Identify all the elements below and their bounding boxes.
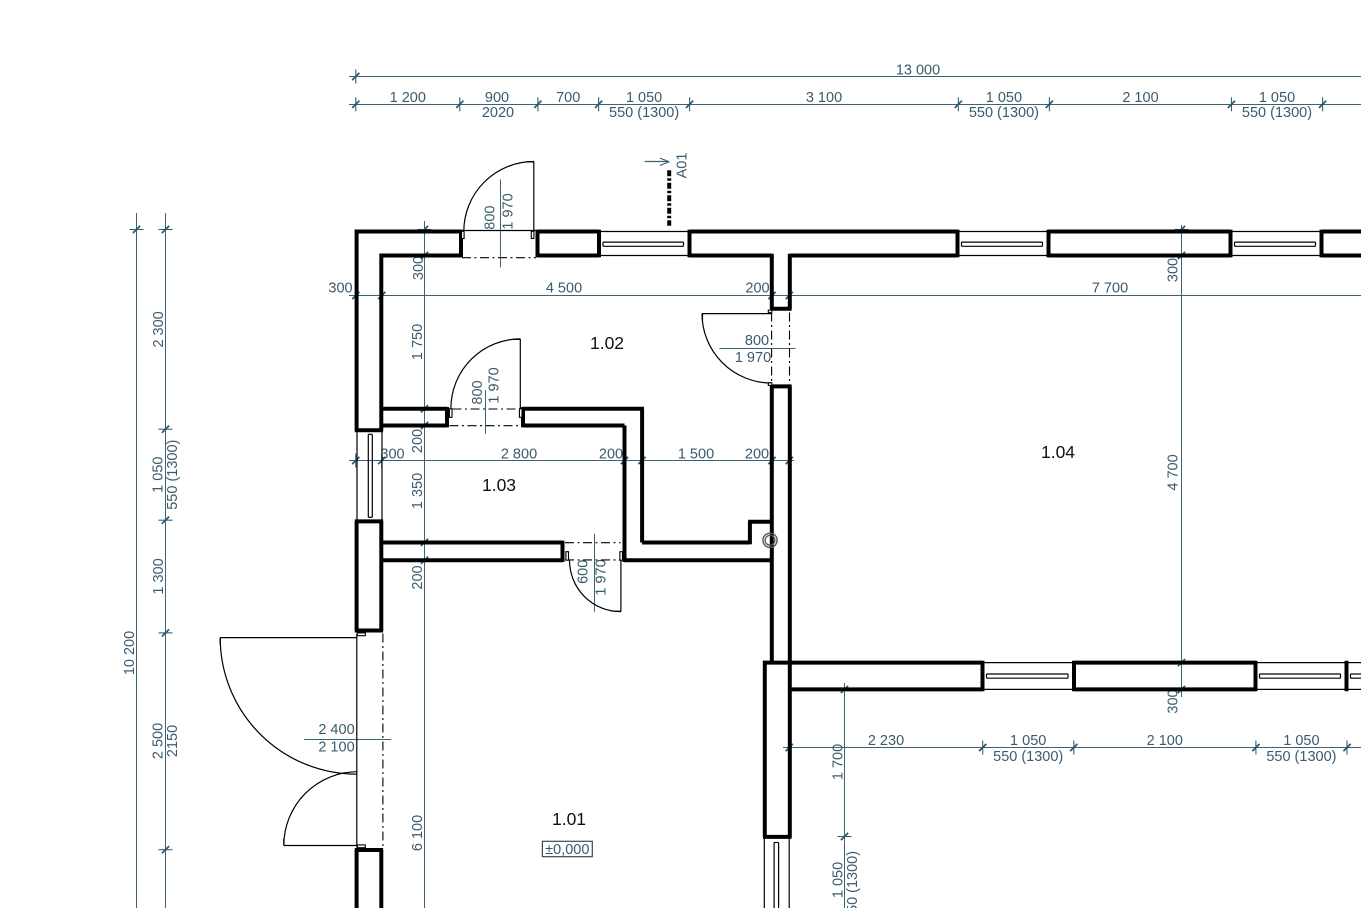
svg-text:550 (1300): 550 (1300) — [969, 105, 1039, 121]
svg-text:1.03: 1.03 — [482, 475, 516, 495]
svg-text:1 750: 1 750 — [410, 324, 426, 360]
room 1.04 label — [1041, 442, 1075, 462]
svg-text:A01: A01 — [675, 153, 691, 179]
svg-text:4 500: 4 500 — [546, 280, 582, 296]
window W6 in wall F — [1257, 663, 1344, 690]
svg-text:±0,000: ±0,000 — [545, 842, 589, 858]
wall C jamb caps — [563, 541, 625, 562]
svg-text:550 (1300): 550 (1300) — [609, 105, 679, 121]
svg-text:800: 800 — [483, 205, 499, 229]
wall D right face — [788, 254, 792, 837]
room 1.03 label — [482, 475, 516, 495]
dimension line M2 interior 300/2800/200/1500/200 — [349, 447, 794, 468]
wall C (1.03/1.01 partition) top face — [381, 541, 750, 545]
svg-text:200: 200 — [410, 565, 426, 589]
svg-text:1.01: 1.01 — [552, 809, 586, 829]
window W5 in wall F — [984, 663, 1072, 690]
wall F (bottom of 1.04) top face — [763, 661, 1256, 665]
wall B (1.02/1.03 partition) top face — [381, 407, 644, 411]
window W3 in wall A — [1232, 232, 1319, 256]
wall F window caps — [983, 661, 1347, 691]
wall D door jamb caps — [770, 309, 792, 387]
svg-text:2 800: 2 800 — [501, 447, 537, 463]
svg-text:1 970: 1 970 — [594, 559, 610, 595]
dimension line T1 total 13 000 — [349, 62, 1361, 83]
svg-text:1 300: 1 300 — [151, 558, 167, 594]
svg-text:6 100: 6 100 — [410, 815, 426, 851]
svg-text:1 050: 1 050 — [626, 90, 662, 106]
svg-text:2 100: 2 100 — [1147, 733, 1183, 749]
dimension line M1 interior 300/4500/200/7700 — [328, 280, 1361, 302]
svg-text:2 400: 2 400 — [318, 722, 354, 738]
door DR4 in wall D — [702, 310, 790, 385]
svg-text:13 000: 13 000 — [896, 62, 940, 78]
svg-text:1.02: 1.02 — [590, 333, 624, 353]
wall A (top exterior) inner face — [380, 254, 1361, 258]
wall F bottom face — [790, 687, 1256, 691]
svg-text:550 (1300): 550 (1300) — [993, 749, 1063, 765]
door DR3 in wall C — [565, 543, 623, 612]
window W4 in left wall — [357, 432, 382, 519]
dimension line M3 interior vertical at x=424 — [410, 221, 431, 908]
svg-text:300: 300 — [1165, 689, 1181, 713]
svg-text:1 500: 1 500 — [678, 447, 714, 463]
wall E (corridor/1.03 partition) — [625, 409, 643, 543]
wall G (below 1.04) left face — [763, 661, 767, 837]
svg-text:2 230: 2 230 — [868, 733, 904, 749]
svg-text:1 050: 1 050 — [986, 90, 1022, 106]
wall C door dim 600/1970 leader — [576, 534, 610, 612]
dimension line L2 left segments — [150, 213, 181, 908]
wall B bottom face — [381, 424, 624, 428]
svg-text:1 050: 1 050 — [1010, 733, 1046, 749]
svg-text:1 050: 1 050 — [150, 457, 166, 493]
svg-text:4 700: 4 700 — [1165, 454, 1181, 490]
window W7 in wall F clipped at right edge — [1348, 663, 1361, 690]
svg-text:550 (1300): 550 (1300) — [165, 440, 181, 510]
section marker A01 cut line — [667, 170, 671, 226]
svg-text:1 970: 1 970 — [501, 193, 517, 229]
dimension line L1 total 10 200 — [122, 213, 144, 908]
drain circle symbol — [763, 533, 777, 547]
svg-text:2 300: 2 300 — [151, 311, 167, 347]
svg-text:300: 300 — [1165, 258, 1181, 282]
dimension line B1 bottom right 2230/1050/2100/1050 — [783, 733, 1361, 765]
svg-text:550 (1300): 550 (1300) — [845, 851, 861, 908]
svg-text:700: 700 — [556, 90, 580, 106]
room 1.01 label — [552, 809, 586, 829]
wall A jamb caps — [461, 230, 1322, 258]
svg-text:300: 300 — [380, 447, 404, 463]
wall D door dim 800/1970 — [719, 333, 795, 366]
room 1.02 label — [590, 333, 624, 353]
wall B jamb caps — [447, 407, 523, 427]
svg-text:300: 300 — [328, 280, 352, 296]
window W2 in wall A — [959, 232, 1046, 256]
dimension line T2 top segments — [349, 90, 1361, 121]
double door dim 2400/2100 — [304, 722, 391, 756]
svg-text:2020: 2020 — [482, 105, 514, 121]
svg-text:900: 900 — [485, 90, 509, 106]
double door DR5 in left wall — [220, 633, 383, 848]
left wall jamb caps — [355, 430, 383, 850]
svg-text:1 970: 1 970 — [487, 367, 503, 403]
window W8 in wall G clipped at bottom edge — [764, 839, 789, 908]
wall D (1.02/1.04 partition) left face — [770, 254, 774, 663]
svg-text:2150: 2150 — [165, 725, 181, 757]
entry door dim 800/1970 leader — [483, 179, 517, 267]
svg-text:200: 200 — [410, 429, 426, 453]
dimension line M5 bottom vertical at x=845 (1 700) — [831, 683, 861, 908]
svg-text:1 050: 1 050 — [1259, 90, 1295, 106]
wall G window cap — [763, 835, 792, 839]
left exterior wall inner face — [379, 254, 383, 908]
svg-text:550 (1300): 550 (1300) — [1242, 105, 1312, 121]
svg-text:1 700: 1 700 — [831, 744, 847, 780]
svg-text:550 (1300): 550 (1300) — [1266, 749, 1336, 765]
svg-text:300: 300 — [411, 256, 427, 280]
level label ±0,000 — [542, 841, 592, 858]
svg-text:1 050: 1 050 — [1283, 733, 1319, 749]
svg-text:2 500: 2 500 — [150, 723, 166, 759]
svg-text:1 970: 1 970 — [735, 350, 771, 366]
svg-text:1.04: 1.04 — [1041, 442, 1075, 462]
entry door DR1 in wall A — [462, 161, 537, 257]
svg-text:800: 800 — [470, 380, 486, 404]
svg-text:2 100: 2 100 — [318, 740, 354, 756]
window W1 in wall A — [601, 232, 688, 256]
wall B door dim 800/1970 leader — [470, 367, 503, 433]
svg-text:3 100: 3 100 — [806, 90, 842, 106]
svg-text:1 200: 1 200 — [390, 90, 426, 106]
svg-text:10 200: 10 200 — [122, 631, 138, 675]
door DR2 in wall B — [449, 339, 522, 426]
svg-text:200: 200 — [745, 280, 769, 296]
svg-text:600: 600 — [576, 560, 592, 584]
section marker A01 arrow — [645, 153, 691, 179]
dimension line M4 interior vertical at x=1181 (4 700) — [1165, 225, 1188, 714]
svg-text:200: 200 — [599, 447, 623, 463]
wall C bottom face — [383, 558, 772, 562]
svg-text:200: 200 — [745, 447, 769, 463]
svg-text:2 100: 2 100 — [1122, 90, 1158, 106]
svg-text:7 700: 7 700 — [1092, 280, 1128, 296]
svg-text:800: 800 — [745, 333, 769, 349]
wall A (top exterior) outer face — [355, 230, 1361, 234]
svg-text:1 350: 1 350 — [410, 473, 426, 509]
corridor niche step — [748, 522, 772, 545]
left exterior wall outer face — [355, 230, 359, 908]
